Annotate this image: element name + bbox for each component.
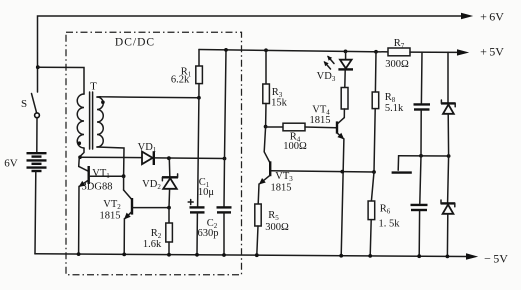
- svg-text:+ 6V: + 6V: [480, 10, 504, 24]
- svg-text:15k: 15k: [271, 98, 288, 109]
- svg-text:100Ω: 100Ω: [283, 141, 307, 152]
- svg-text:− 5V: − 5V: [484, 252, 508, 266]
- svg-text:6V: 6V: [4, 158, 18, 170]
- svg-text:VD3: VD3: [317, 71, 336, 83]
- svg-text:3DG88: 3DG88: [82, 182, 113, 193]
- svg-text:300Ω: 300Ω: [385, 59, 409, 70]
- svg-text:VT2: VT2: [103, 199, 121, 211]
- svg-text:1815: 1815: [271, 183, 292, 194]
- svg-text:S: S: [21, 98, 27, 110]
- svg-text:DC/DC: DC/DC: [115, 37, 155, 49]
- svg-text:10μ: 10μ: [198, 187, 215, 198]
- svg-text:1815: 1815: [100, 211, 121, 222]
- svg-text:VD1: VD1: [138, 142, 157, 154]
- svg-text:VT3: VT3: [275, 171, 293, 183]
- svg-text:1. 5k: 1. 5k: [379, 219, 401, 230]
- svg-text:300Ω: 300Ω: [265, 222, 289, 233]
- svg-text:R6: R6: [380, 204, 391, 216]
- svg-text:VD2: VD2: [142, 179, 161, 191]
- svg-text:6.2k: 6.2k: [171, 75, 190, 86]
- svg-text:630p: 630p: [198, 228, 219, 239]
- svg-text:5.1k: 5.1k: [385, 103, 404, 114]
- svg-text:1.6k: 1.6k: [143, 239, 162, 250]
- svg-text:T: T: [90, 81, 97, 93]
- svg-text:R7: R7: [394, 38, 405, 50]
- svg-text:R5: R5: [268, 210, 279, 222]
- svg-text:1815: 1815: [310, 115, 331, 126]
- svg-text:+ 5V: + 5V: [480, 45, 504, 59]
- svg-text:VT1: VT1: [92, 168, 110, 180]
